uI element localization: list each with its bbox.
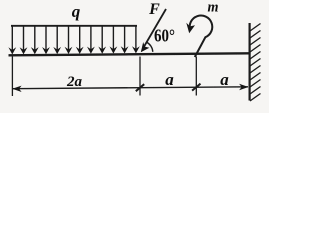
svg-text:m: m <box>208 0 219 16</box>
svg-text:a: a <box>220 70 229 89</box>
svg-text:q: q <box>72 2 81 21</box>
svg-text:F: F <box>148 1 160 18</box>
svg-text:2a: 2a <box>66 74 83 90</box>
svg-text:a: a <box>165 70 174 89</box>
svg-text:60°: 60° <box>154 25 175 45</box>
